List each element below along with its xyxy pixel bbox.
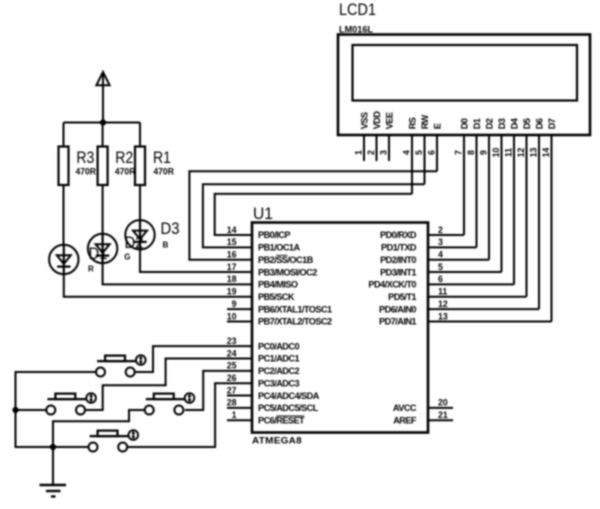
svg-text:PD3/INT1: PD3/INT1 <box>380 267 416 277</box>
svg-text:PD4/XCK/T0: PD4/XCK/T0 <box>368 280 416 290</box>
svg-text:16: 16 <box>227 250 237 260</box>
wire D1 to U1 pin 19 <box>64 274 252 297</box>
LCD pin 9 wire <box>488 135 490 260</box>
svg-text:PB5/SCK: PB5/SCK <box>258 292 295 302</box>
wire button4 to U1 pin 26 <box>127 383 252 447</box>
LCD pin 8 wire <box>476 135 478 247</box>
svg-text:LCD1: LCD1 <box>339 1 376 19</box>
wire U1 pin 5 to LCD pin 10 <box>428 271 502 273</box>
wire RS LCD4 to U1 pin14 <box>215 194 412 235</box>
svg-text:14: 14 <box>227 225 237 235</box>
svg-text:21: 21 <box>438 410 448 420</box>
svg-text:2: 2 <box>438 225 443 235</box>
svg-text:PB3/MOSI/OC2: PB3/MOSI/OC2 <box>258 267 317 277</box>
svg-text:25: 25 <box>227 361 237 371</box>
resistor R3 <box>59 147 69 186</box>
svg-text:PD2/INT0: PD2/INT0 <box>380 255 416 265</box>
svg-text:470R: 470R <box>153 167 174 177</box>
wire D3 to U1 pin 17 <box>140 249 252 272</box>
LCD pin 6 wire <box>436 135 438 171</box>
wire R3 top <box>63 123 65 147</box>
wire R1 top <box>139 123 141 147</box>
svg-text:ATMEGA8: ATMEGA8 <box>252 436 302 446</box>
svg-text:23: 23 <box>227 336 237 346</box>
svg-text:20: 20 <box>438 398 448 408</box>
svg-text:D0: D0 <box>460 118 470 129</box>
svg-text:R1: R1 <box>153 149 171 167</box>
LCD LCD1 body <box>338 35 590 136</box>
U1 pin 27 stub <box>227 395 252 397</box>
svg-text:10: 10 <box>227 311 237 321</box>
wire U1 pin 12 to LCD pin 13 <box>428 308 539 310</box>
svg-text:D1: D1 <box>472 118 482 129</box>
button SW2 press symbol <box>86 393 96 403</box>
svg-text:2: 2 <box>366 150 376 155</box>
svg-text:PB2/SS/OC1B: PB2/SS/OC1B <box>258 255 314 265</box>
LCD pin 13 wire <box>538 135 540 309</box>
wire U1 pin 6 to LCD pin 11 <box>428 283 514 285</box>
svg-text:PC6/RESET: PC6/RESET <box>258 415 305 425</box>
LCD pin 7 wire <box>463 135 465 235</box>
LCD display window <box>353 45 578 101</box>
svg-text:PD7/AIN1: PD7/AIN1 <box>379 317 416 327</box>
svg-text:12: 12 <box>516 148 526 158</box>
wire E LCD6 to U1 pin16 <box>189 171 437 259</box>
push button SW2 <box>46 394 86 415</box>
resistor R1 <box>135 147 145 186</box>
svg-text:6: 6 <box>426 150 436 155</box>
svg-text:D5: D5 <box>522 118 532 129</box>
svg-text:17: 17 <box>227 262 237 272</box>
svg-text:5: 5 <box>414 150 424 155</box>
LCD pin 4 wire <box>411 135 413 194</box>
svg-text:PC2/ADC2: PC2/ADC2 <box>258 366 299 376</box>
LCD pin 2 wire <box>376 135 378 161</box>
svg-text:PB6/XTAL1/TOSC1: PB6/XTAL1/TOSC1 <box>258 304 332 314</box>
IC U1 ATMEGA8 body <box>252 223 428 433</box>
wire power rail horizontal <box>64 122 141 124</box>
svg-text:PC1/ADC1: PC1/ADC1 <box>258 354 299 364</box>
svg-text:PC4/ADC4/SDA: PC4/ADC4/SDA <box>258 391 320 401</box>
svg-text:U1: U1 <box>253 205 273 223</box>
svg-text:PD5/T1: PD5/T1 <box>388 292 416 302</box>
wire button3 to U1 pin 25 <box>185 371 252 410</box>
svg-text:VEE: VEE <box>385 112 395 129</box>
svg-text:PC5/ADC5/SCL: PC5/ADC5/SCL <box>258 403 319 413</box>
wire button3 left to ground node <box>53 410 145 447</box>
svg-text:6: 6 <box>438 274 443 284</box>
push button SW3 <box>145 394 185 415</box>
svg-text:RS: RS <box>408 117 418 129</box>
push button SW4 <box>89 431 129 452</box>
svg-text:PD1/TXD: PD1/TXD <box>381 243 417 253</box>
wire D2 to U1 pin 18 <box>103 263 252 285</box>
svg-text:13: 13 <box>528 148 538 158</box>
svg-text:AVCC: AVCC <box>393 403 417 413</box>
U1 pin 10 stub <box>227 320 252 322</box>
LED D1 <box>49 245 78 274</box>
svg-text:1: 1 <box>353 150 363 155</box>
svg-text:7: 7 <box>453 150 463 155</box>
svg-text:R3: R3 <box>76 149 94 167</box>
wire R2 top <box>102 123 104 147</box>
U1 pin 20 stub <box>428 407 453 409</box>
U1 pin 1 stub <box>227 419 252 421</box>
svg-text:RW: RW <box>420 114 430 129</box>
LED D3 <box>125 220 154 249</box>
svg-text:PB4/MISO: PB4/MISO <box>258 280 298 290</box>
svg-text:D3: D3 <box>161 220 180 238</box>
svg-text:PB0/ICP: PB0/ICP <box>258 230 290 240</box>
junction node power rail <box>100 119 106 125</box>
svg-text:E: E <box>433 123 443 129</box>
button SW1 press symbol <box>136 355 146 365</box>
push button SW1 <box>96 356 136 377</box>
wire ground drop <box>52 447 54 485</box>
svg-text:PC3/ADC3: PC3/ADC3 <box>258 378 299 388</box>
svg-text:9: 9 <box>232 299 237 309</box>
svg-text:R2: R2 <box>115 149 133 167</box>
LCD pin 14 wire <box>551 135 553 321</box>
wire U1 pin 2 to LCD pin 7 <box>428 234 464 236</box>
svg-text:26: 26 <box>227 373 237 383</box>
LCD pin 3 wire <box>388 135 390 161</box>
junction node rail button2 <box>12 407 18 413</box>
svg-text:D7: D7 <box>547 118 557 129</box>
U1 pin 9 stub <box>227 308 252 310</box>
wire U1 pin 13 to LCD pin 14 <box>428 320 552 322</box>
power symbol VCC arrow <box>96 72 109 123</box>
svg-text:4: 4 <box>401 150 411 155</box>
wire R2 to D2 <box>102 185 104 235</box>
U1 pin 28 stub <box>227 407 252 409</box>
wire U1 pin 3 to LCD pin 8 <box>428 246 477 248</box>
wire U1 pin 11 to LCD pin 12 <box>428 296 527 298</box>
wire RW LCD5 to U1 pin15 <box>203 184 425 247</box>
svg-text:27: 27 <box>227 385 237 395</box>
svg-text:PB1/OC1A: PB1/OC1A <box>258 243 300 253</box>
LCD pin 10 wire <box>501 135 503 272</box>
svg-text:4: 4 <box>438 250 443 260</box>
svg-text:R: R <box>88 265 94 274</box>
svg-text:10: 10 <box>491 148 501 158</box>
svg-text:9: 9 <box>478 150 488 155</box>
svg-text:PB7/XTAL2/TOSC2: PB7/XTAL2/TOSC2 <box>258 317 332 327</box>
svg-text:LM016L: LM016L <box>339 24 373 34</box>
svg-text:19: 19 <box>227 287 237 297</box>
svg-text:D6: D6 <box>535 118 545 129</box>
button SW4 press symbol <box>129 430 139 440</box>
wire button1 to U1 pin 23 <box>135 346 252 372</box>
svg-text:24: 24 <box>227 348 237 358</box>
svg-text:8: 8 <box>466 150 476 155</box>
svg-text:13: 13 <box>438 311 448 321</box>
svg-text:11: 11 <box>438 287 447 297</box>
U1 pin 21 stub <box>428 419 453 421</box>
svg-text:3: 3 <box>438 237 443 247</box>
svg-text:28: 28 <box>227 398 237 408</box>
svg-text:D4: D4 <box>510 117 520 129</box>
resistor R2 <box>98 147 108 186</box>
svg-text:5: 5 <box>438 262 443 272</box>
svg-text:VSS: VSS <box>360 112 370 129</box>
junction node ground <box>50 444 56 450</box>
svg-text:VDD: VDD <box>372 111 382 130</box>
svg-text:G: G <box>124 252 130 261</box>
svg-text:B: B <box>163 241 169 250</box>
wire U1 pin 4 to LCD pin 9 <box>428 259 489 261</box>
svg-text:470R: 470R <box>115 167 136 177</box>
svg-text:AREF: AREF <box>393 415 417 425</box>
svg-text:1: 1 <box>232 410 237 420</box>
svg-text:D2: D2 <box>485 118 495 129</box>
button SW3 press symbol <box>185 393 195 403</box>
svg-text:470R: 470R <box>76 167 97 177</box>
svg-text:18: 18 <box>227 274 237 284</box>
svg-text:3: 3 <box>378 150 388 155</box>
wire ground rail left <box>16 372 97 447</box>
wire R3 to D1 <box>63 185 65 246</box>
svg-text:14: 14 <box>541 148 551 158</box>
svg-text:15: 15 <box>227 237 237 247</box>
wire R1 to D3 <box>139 185 141 222</box>
ground symbol <box>40 485 67 497</box>
LCD pin 12 wire <box>526 135 528 297</box>
svg-text:PC0/ADC0: PC0/ADC0 <box>258 341 299 351</box>
svg-text:12: 12 <box>438 299 448 309</box>
LED D2 <box>88 234 117 263</box>
wire rail to button2 left <box>16 409 47 411</box>
wire button2 to U1 pin 24 <box>85 359 252 411</box>
svg-text:11: 11 <box>503 148 513 157</box>
LCD pin 5 wire <box>424 135 426 184</box>
svg-text:PD6/AIN0: PD6/AIN0 <box>379 304 416 314</box>
svg-text:D3: D3 <box>497 118 507 129</box>
svg-text:PD0/RXD: PD0/RXD <box>380 230 417 240</box>
LCD pin 1 wire <box>363 135 365 161</box>
LCD pin 11 wire <box>513 135 515 284</box>
